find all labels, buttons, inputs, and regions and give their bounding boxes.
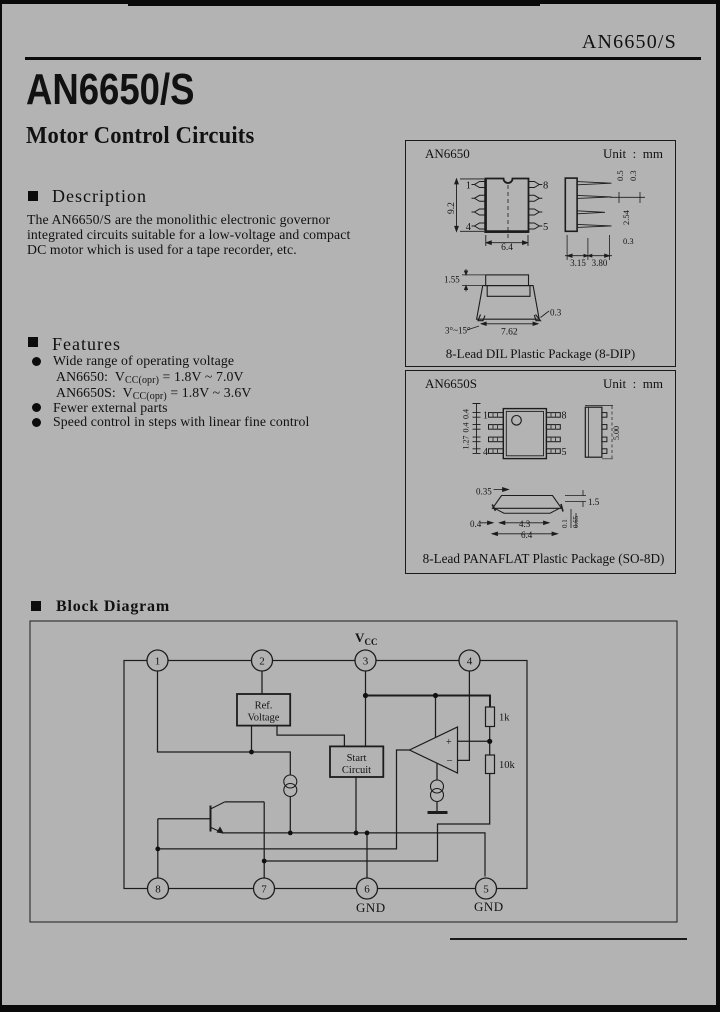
svg-text:Ref.: Ref. [255, 701, 273, 712]
svg-text:2: 2 [259, 656, 265, 668]
svg-text:4: 4 [466, 222, 472, 233]
svg-text:5: 5 [543, 222, 548, 233]
svg-text:10k: 10k [499, 760, 516, 771]
svg-text:7.62: 7.62 [501, 328, 518, 338]
svg-text:5.00: 5.00 [612, 426, 621, 440]
svg-text:7: 7 [261, 884, 267, 896]
svg-text:0.5: 0.5 [615, 170, 625, 181]
svg-text:5: 5 [483, 884, 489, 896]
svg-text:1: 1 [483, 410, 488, 421]
svg-text:Voltage: Voltage [248, 713, 280, 724]
svg-text:8: 8 [155, 884, 161, 896]
svg-text:5: 5 [562, 447, 567, 458]
svg-text:0.4: 0.4 [470, 519, 482, 529]
svg-text:1.55: 1.55 [444, 275, 460, 285]
svg-text:GND: GND [356, 900, 386, 915]
svg-text:CC: CC [365, 637, 378, 647]
svg-text:8: 8 [543, 181, 548, 192]
svg-text:1: 1 [466, 181, 471, 192]
svg-text:3: 3 [363, 656, 369, 668]
svg-text:0.3: 0.3 [628, 170, 638, 181]
svg-text:0.1: 0.1 [561, 518, 569, 527]
svg-text:0.65: 0.65 [572, 515, 580, 528]
svg-text:6: 6 [364, 884, 370, 896]
svg-text:Start: Start [347, 753, 367, 764]
svg-text:9.2: 9.2 [447, 202, 457, 214]
svg-text:3°~15°: 3°~15° [445, 326, 471, 336]
svg-text:6.4: 6.4 [501, 243, 513, 253]
svg-text:1.5: 1.5 [588, 497, 600, 507]
svg-text:4: 4 [467, 656, 473, 668]
svg-text:1k: 1k [499, 713, 510, 724]
svg-text:0.4: 0.4 [462, 422, 471, 432]
svg-text:0.3: 0.3 [550, 308, 562, 318]
svg-text:4.3: 4.3 [519, 519, 531, 529]
svg-text:3.80: 3.80 [592, 258, 608, 268]
svg-text:Circuit: Circuit [342, 765, 371, 776]
svg-text:1: 1 [155, 656, 161, 668]
svg-text:1.27: 1.27 [462, 435, 471, 449]
svg-text:0.3: 0.3 [623, 236, 634, 246]
svg-text:2.54: 2.54 [621, 209, 631, 225]
svg-text:4: 4 [483, 447, 488, 458]
svg-text:0.4: 0.4 [462, 409, 471, 419]
svg-text:−: − [447, 755, 453, 767]
svg-text:0.35: 0.35 [476, 486, 492, 496]
svg-text:GND: GND [474, 899, 504, 914]
svg-text:3.15: 3.15 [570, 258, 586, 268]
svg-text:+: + [446, 737, 452, 748]
svg-text:8: 8 [562, 410, 567, 421]
svg-text:6.4: 6.4 [521, 530, 533, 540]
svg-text:V: V [355, 630, 365, 645]
